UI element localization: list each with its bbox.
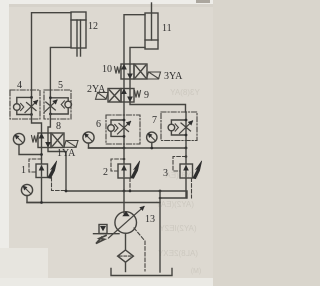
paper background xyxy=(0,0,213,286)
relief valve 1 body xyxy=(36,164,48,178)
node H3 gauge G3 xyxy=(150,147,153,150)
valve 8 solenoid 1YA xyxy=(64,141,78,148)
valve 5 check branch xyxy=(50,98,68,101)
relief valve 2 body xyxy=(118,164,131,178)
relief valve 1 spring xyxy=(48,161,57,179)
pressure gauge G4 xyxy=(21,184,41,202)
valve 6 enclosure xyxy=(106,115,140,144)
relief valve 1 drain line xyxy=(52,178,67,191)
wire return line to tank xyxy=(159,191,161,272)
valve 5 throttle arrow xyxy=(45,100,58,112)
node valve4 top xyxy=(30,96,33,99)
relief valve 3 spring xyxy=(193,161,202,179)
svg-text:7: 7 xyxy=(152,115,157,126)
valve 6 throttle slash xyxy=(119,124,129,132)
valve 7 check ball xyxy=(168,124,175,131)
pressure gauge G1 xyxy=(13,133,40,154)
wire tank header H1 xyxy=(66,191,187,198)
wire header H3 xyxy=(89,147,187,149)
node H1 valve8 T xyxy=(65,190,68,193)
svg-text:8: 8 xyxy=(56,121,61,132)
valve 5 throttle slash xyxy=(46,102,56,110)
svg-text:2: 2 xyxy=(103,167,108,178)
svg-text:5: 5 xyxy=(58,80,63,91)
wire valve8 T port to tank header H1 xyxy=(48,148,66,192)
svg-text:Y3(8)AY: Y3(8)AY xyxy=(170,88,200,97)
node valve7 bottom xyxy=(185,134,188,137)
valve 4 check ball xyxy=(13,104,20,111)
node H1 pump riser xyxy=(123,190,126,193)
svg-text:(M): (M) xyxy=(191,268,202,275)
valve 4 check branch xyxy=(17,97,32,103)
bleed-through watermark text xyxy=(155,88,201,275)
node foot return xyxy=(159,197,162,200)
tank xyxy=(111,269,172,276)
valve 9 solenoid 2YA xyxy=(96,93,109,100)
relief valve 3 drain line xyxy=(191,178,193,198)
valve 7 check seat xyxy=(175,124,178,131)
node H1 drain relief2 xyxy=(129,190,132,193)
cylinder 12 xyxy=(71,12,86,56)
valve 6 check seat xyxy=(115,124,118,131)
svg-text:10: 10 xyxy=(102,64,112,75)
svg-text:3YA: 3YA xyxy=(164,71,183,82)
valve 8 spring W xyxy=(32,136,38,143)
wire relief2 down to H1 xyxy=(123,178,125,191)
svg-text:13: 13 xyxy=(145,214,155,225)
valve 9 body xyxy=(108,89,134,103)
node valve6 top xyxy=(123,119,126,122)
wire pump riser xyxy=(123,191,125,213)
svg-text:(AY2)IE2Y: (AY2)IE2Y xyxy=(159,224,197,233)
node H3 right end xyxy=(185,147,188,150)
valve 5 check ball xyxy=(65,101,72,108)
relief valve 3 pilot line xyxy=(173,157,186,172)
node H2 relief1 xyxy=(40,201,43,204)
wire cyl12 top port to valve 4 xyxy=(32,13,72,90)
svg-text:9: 9 xyxy=(144,90,149,101)
svg-text:12: 12 xyxy=(88,21,98,32)
pump compensator xyxy=(94,225,120,244)
valve 4 throttle slash xyxy=(27,103,37,111)
node H1 return xyxy=(159,190,162,193)
relief valve 2 pilot line xyxy=(111,159,124,171)
valve 4 check seat xyxy=(21,103,24,110)
svg-text:6: 6 xyxy=(96,119,101,130)
node H3 valve6 xyxy=(123,147,126,150)
relief valve 2 spring xyxy=(131,161,140,179)
relief valve 1 pilot line xyxy=(29,159,42,172)
valve 6 main line xyxy=(123,115,125,148)
wire tank line H2 xyxy=(27,202,160,204)
svg-text:1: 1 xyxy=(21,165,26,176)
pump 13 xyxy=(109,207,145,239)
node valve4 bottom xyxy=(30,113,33,116)
valve 7 main line xyxy=(185,112,187,148)
pressure gauge G2 xyxy=(83,132,124,148)
svg-text:3: 3 xyxy=(163,168,168,179)
relief valve 3 body xyxy=(180,164,193,178)
node valve6 bottom xyxy=(123,135,126,138)
wire main bus valve6 to pump riser xyxy=(123,148,125,164)
valve 6 check branch xyxy=(111,120,124,125)
svg-text:4: 4 xyxy=(17,80,22,91)
valve 7 check branch xyxy=(171,120,186,124)
valve 7 enclosure xyxy=(161,112,197,141)
node valve5 bottom xyxy=(49,113,52,116)
valve 4 throttle arrow xyxy=(25,101,38,113)
cylinder 11 xyxy=(145,3,158,49)
valve 10 spring W xyxy=(115,67,121,74)
valve 6 throttle arrow xyxy=(118,122,131,135)
svg-text:2YA: 2YA xyxy=(87,84,106,95)
relief valve 2 drain line xyxy=(129,178,131,191)
wire filter to tank xyxy=(125,262,127,271)
svg-text:11: 11 xyxy=(162,23,172,34)
svg-text:(AL8)2EXY: (AL8)2EXY xyxy=(157,249,198,258)
valve 5 check seat xyxy=(61,101,64,108)
node relief3 pilot tap xyxy=(185,155,188,158)
valve 5 main line xyxy=(49,90,51,115)
valve 5 enclosure xyxy=(44,90,71,119)
node valve5 top xyxy=(49,96,52,99)
valve 10 solenoid 3YA xyxy=(147,72,161,79)
svg-text:1YA: 1YA xyxy=(57,148,76,159)
wire relief3 foot xyxy=(160,178,186,198)
wire valve9 right bus to valve 7 xyxy=(130,102,186,112)
svg-text:(AY2)(EAY: (AY2)(EAY xyxy=(155,200,194,209)
node valve7 top xyxy=(185,119,188,122)
valve 7 throttle slash xyxy=(181,123,191,131)
wire valve10 to valve9 port lines xyxy=(124,79,130,89)
valve 7 throttle arrow xyxy=(180,121,193,134)
valve 9 spring W xyxy=(135,91,141,98)
wire cyl11 top port to valve 10 port A xyxy=(124,15,145,64)
wire relief 1 to tank line H2 xyxy=(41,178,43,203)
valve 4 main line xyxy=(31,90,33,115)
valve 4 enclosure xyxy=(10,90,40,119)
wire cyl11 bottom port to valve 10 port B xyxy=(130,47,145,64)
node gauge G1 tap xyxy=(40,153,43,156)
wire valve5 to valve8 right port xyxy=(48,114,50,133)
valve 8 body xyxy=(38,133,64,148)
filter xyxy=(118,250,134,262)
node relief2 pilot tap xyxy=(123,158,126,161)
wire valve8 P port down to relief 1 xyxy=(41,148,43,165)
pressure gauge G3 xyxy=(147,132,157,148)
wire pump suction xyxy=(125,233,127,250)
wire valve9 left bus down to valve 6 xyxy=(123,102,125,115)
wire cyl12 bottom port to valve 5 xyxy=(50,47,71,90)
valve 10 body xyxy=(121,64,147,79)
wire relief3 main line segments xyxy=(185,148,187,164)
valve 6 check ball xyxy=(108,125,115,132)
pump drain line xyxy=(134,228,145,271)
wire valve4 to valve8 left port xyxy=(32,115,42,134)
